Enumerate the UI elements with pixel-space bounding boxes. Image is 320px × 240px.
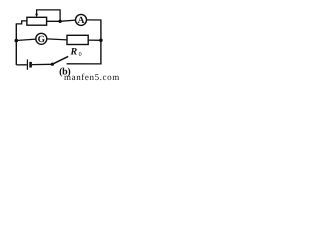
wire: left rail to galvanometer [16,39,36,40]
wire: bottom-left corner to battery [16,64,27,66]
wire: ammeter to right rail top corner [87,19,101,21]
resistor R (rheostat body) [27,17,47,25]
node: junction of slider leg and top wire [58,20,61,23]
rheostat slider arm vertical with arrowhead [36,10,38,14]
wire: left rail [15,24,17,65]
wire: top-left jog from left rail to rheostat [16,21,28,24]
wire: switch fixed contact to bottom-right corner [67,63,101,65]
svg-text:0: 0 [79,52,82,58]
svg-text:manfen5.com: manfen5.com [64,72,120,82]
switch S blade (open) [52,56,68,64]
wire: resistor R0 to right rail [88,39,101,41]
wire: right rail [100,19,102,64]
wire: slider arm horizontal bar [36,10,60,22]
node: right rail to R0 branch [99,39,103,43]
wire: battery to switch pivot [32,63,52,65]
svg-text:A: A [78,16,85,26]
resistor R0 [67,35,88,44]
node: switch pivot [51,63,54,66]
node: left rail to galvanometer branch [14,39,18,43]
galvanometer G (meter circle) [36,33,47,44]
ammeter A (meter circle) [76,14,87,25]
wire: galvanometer to resistor R0 [47,39,67,40]
svg-text:G: G [38,35,46,45]
battery BT (long positive plate) [26,59,28,69]
battery BT (short negative plate) [29,62,32,68]
wire: rheostat to ammeter [47,20,76,21]
svg-text:R: R [70,47,78,58]
